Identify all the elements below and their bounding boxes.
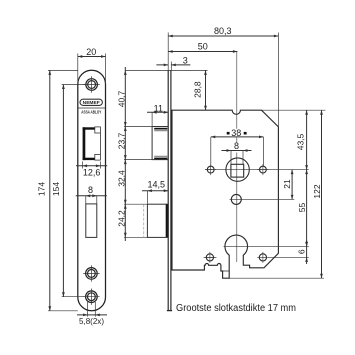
separator line under logo <box>78 107 105 109</box>
vertical centreline lower <box>236 153 238 263</box>
latch cutout front view: black left bar <box>83 127 86 160</box>
left screw hole side view <box>207 166 214 173</box>
spindle square <box>231 164 244 177</box>
middle screw hole front view <box>86 268 98 280</box>
deadbolt phantom line <box>143 204 145 237</box>
dim 80.3 line <box>168 35 278 37</box>
svg-text:40,7: 40,7 <box>116 90 126 107</box>
dim 20 extension lines <box>78 54 106 85</box>
dim 38 extension lines <box>211 137 264 166</box>
latch bolt side view black top bar <box>154 128 167 130</box>
svg-text:3: 3 <box>183 56 188 66</box>
svg-text:ASSA ABLOY: ASSA ABLOY <box>81 110 101 115</box>
dim 21 line <box>291 170 293 200</box>
dim 38 line <box>211 136 264 138</box>
latch cutout front view: black bottom bar <box>83 158 95 160</box>
extension case right edge up <box>277 33 279 127</box>
svg-text:43,5: 43,5 <box>295 133 305 150</box>
extension plate top to 28.8 <box>125 69 207 71</box>
horizontal centreline small circle <box>230 198 295 200</box>
dim 55 line <box>306 170 308 247</box>
svg-text:8: 8 <box>88 185 93 195</box>
dim 122 line <box>321 110 323 278</box>
svg-text:122: 122 <box>312 184 322 198</box>
svg-text:5,8(2x): 5,8(2x) <box>79 317 104 326</box>
bottom right screw hole <box>259 254 266 261</box>
latch cutout front view: black top bar <box>83 127 95 129</box>
svg-text:80,3: 80,3 <box>214 26 232 36</box>
svg-text:20: 20 <box>86 47 96 57</box>
side view faceplate bottom cap <box>167 310 172 312</box>
svg-text:21: 21 <box>282 179 292 189</box>
dim 8 spindle extension lines <box>231 151 243 165</box>
svg-text:14,5: 14,5 <box>148 180 166 190</box>
svg-text:154: 154 <box>51 182 61 196</box>
top screw hole front view <box>86 79 98 91</box>
dim 50 line <box>168 51 237 53</box>
dim 3 line with outside arrows and leader <box>156 64 190 66</box>
deadbolt cutout front view <box>86 204 97 238</box>
svg-text:32,4: 32,4 <box>116 170 126 187</box>
dim 12.6 extension lines <box>83 162 101 169</box>
latch bolt side view outline <box>152 127 168 160</box>
latch cutout front view: top right square <box>95 127 101 133</box>
chamfer region top edge extension <box>262 109 279 111</box>
extension line top screw centre <box>62 84 86 86</box>
deadbolt side view black bar <box>166 204 168 237</box>
cylinder foot top line <box>223 270 230 272</box>
right screw hole side view <box>260 166 267 173</box>
small circle below spindle <box>231 194 241 204</box>
dim 5.8 extension lines <box>88 302 96 317</box>
dim 20 line <box>78 56 106 58</box>
chain extension lines <box>124 127 152 238</box>
NEMEF logo oval <box>80 99 102 105</box>
dim 11 extension line <box>151 113 153 127</box>
deadbolt side view outline <box>147 204 168 237</box>
svg-text:6: 6 <box>297 249 307 254</box>
horizontal centreline spindle row <box>205 169 309 171</box>
svg-text:8: 8 <box>234 141 239 151</box>
bottom left screw hole <box>206 254 213 261</box>
left chain dimension line <box>124 67 126 241</box>
faceplate front view outline <box>78 70 106 310</box>
latch bolt side view black bottom bar <box>154 158 167 160</box>
dim 8 front line with outside arrows <box>76 195 107 197</box>
dim 14.5 extension line <box>146 191 148 204</box>
dim 154 line <box>62 85 64 297</box>
svg-text:Grootste slotkastdikte 17 mm: Grootste slotkastdikte 17 mm <box>176 303 296 314</box>
latch cutout front view: right edge line <box>99 133 101 154</box>
bottom extension line to 122 dim <box>229 277 324 279</box>
dim 5.8 line with outside arrows <box>77 314 107 316</box>
case top edge extension to right <box>278 109 325 111</box>
side view faceplate bars <box>167 70 169 310</box>
svg-text:50: 50 <box>198 42 208 52</box>
dim 38 squares beside text <box>227 132 230 135</box>
dim 6 line with outside arrows <box>306 240 308 264</box>
svg-text:55: 55 <box>297 203 307 213</box>
dim 12.6 line with outside arrows <box>76 165 107 167</box>
dim 8 front extension lines <box>86 196 97 204</box>
svg-text:38: 38 <box>231 128 241 138</box>
horizontal centreline cylinder <box>224 245 309 247</box>
svg-text:174: 174 <box>37 182 47 196</box>
horizontal centreline bottom screws <box>204 256 217 258</box>
svg-text:NEMEF: NEMEF <box>83 100 100 106</box>
svg-text:12,6: 12,6 <box>83 168 101 178</box>
extension line bottom screw centre <box>62 296 86 298</box>
spindle hub circle <box>226 158 249 181</box>
svg-text:28,8: 28,8 <box>193 81 203 98</box>
bottom screw hole front view <box>86 291 98 303</box>
svg-text:23,7: 23,7 <box>116 132 126 149</box>
svg-text:24,2: 24,2 <box>116 210 126 227</box>
dim 43.5 line <box>306 110 308 169</box>
dim 28.8 line <box>205 70 207 110</box>
dim 174 line <box>49 70 51 310</box>
extension line plate top left <box>48 69 78 71</box>
dim 11 line with outside arrows <box>147 111 168 113</box>
latch cutout front view: bottom right square <box>95 154 101 160</box>
lock case outline <box>172 110 278 278</box>
extension line plate bottom left <box>48 310 78 312</box>
latch bolt side view thin line under top bar <box>154 130 167 132</box>
dim 14.5 line with outside arrows <box>142 190 168 192</box>
dim 3 extension (plate left face up) <box>167 33 169 71</box>
dim 8 spindle line with outside arrows <box>222 150 252 152</box>
vertical centreline upper <box>236 52 238 143</box>
latch bolt side view thin line above bottom bar <box>154 155 167 157</box>
